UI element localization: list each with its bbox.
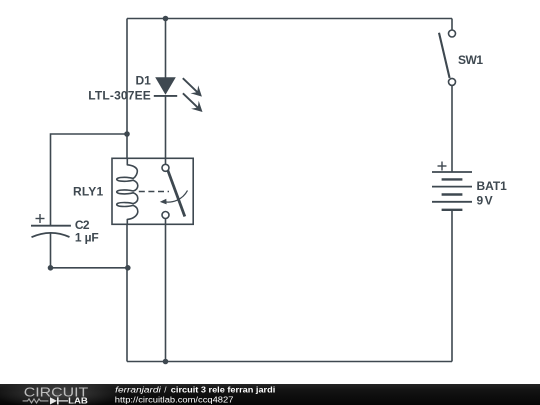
relay RLY1 dashed link <box>139 191 169 193</box>
LED D1 arrow 1 <box>183 78 202 96</box>
wire left vertical lower <box>126 224 128 361</box>
wire top rail <box>127 18 452 20</box>
switch SW1 blade <box>439 33 450 78</box>
capacitor C2 plus plate <box>31 225 71 227</box>
node junction top <box>163 16 169 22</box>
capacitor C2 plus sign <box>36 214 45 223</box>
wire branch to C2 <box>51 134 128 225</box>
node junction C2 bottom <box>48 265 54 271</box>
switch SW1 pin bottom <box>449 78 456 85</box>
capacitor C2 curved plate <box>32 233 70 237</box>
logo diode <box>50 397 68 404</box>
svg-text:1 µF: 1 µF <box>75 230 99 244</box>
footer bar <box>0 384 540 405</box>
svg-text:D1: D1 <box>136 73 152 87</box>
svg-text:ferranjardi: ferranjardi <box>115 386 161 395</box>
LED D1 triangle <box>155 77 176 95</box>
relay RLY1 pin top <box>162 164 169 171</box>
wire C2 bottom to junction <box>51 233 128 268</box>
svg-text:9 V: 9 V <box>477 194 493 208</box>
svg-text:RLY1: RLY1 <box>73 184 104 198</box>
wire left vertical upper <box>126 19 128 159</box>
svg-text:BAT1: BAT1 <box>477 179 508 193</box>
logo resistor zigzag <box>23 399 49 403</box>
svg-text:SW1: SW1 <box>458 53 483 67</box>
node junction left <box>124 131 130 137</box>
relay RLY1 box <box>112 158 193 224</box>
LED D1 arrow 2 <box>183 93 203 112</box>
wire bottom rail <box>127 361 452 363</box>
footer logo glow <box>0 380 122 405</box>
wire BAT1 to bottom rail <box>451 210 453 362</box>
switch SW1 pin top <box>449 30 456 37</box>
footer credit line <box>115 386 275 395</box>
svg-text:LTL-307EE: LTL-307EE <box>88 88 151 102</box>
wire LED branch upper <box>165 19 167 78</box>
LED D1 cathode bar <box>154 95 177 97</box>
wire SW1 top <box>451 19 453 31</box>
relay RLY1 coil <box>117 158 138 224</box>
wire LED to relay pin <box>165 96 167 164</box>
svg-text:http://circuitlab.com/ccq4827: http://circuitlab.com/ccq4827 <box>115 396 234 405</box>
svg-text:circuit 3 rele ferran jardi: circuit 3 rele ferran jardi <box>171 386 275 395</box>
node junction bottom rail <box>163 359 169 365</box>
svg-text:LAB: LAB <box>68 396 88 405</box>
relay RLY1 blade <box>168 170 185 216</box>
relay RLY1 pin bottom <box>162 212 169 219</box>
battery BAT1 plus sign <box>438 162 447 171</box>
wire relay pin to bottom rail <box>165 219 167 362</box>
wire SW1 to BAT1 <box>451 85 453 172</box>
node junction lower left <box>125 265 131 271</box>
battery BAT1 plates <box>432 172 472 210</box>
relay RLY1 arrow <box>160 191 188 205</box>
